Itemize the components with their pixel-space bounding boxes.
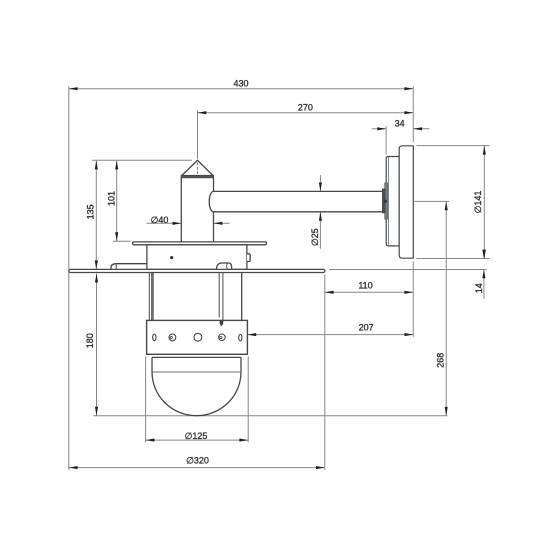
extension lines: [69, 86, 490, 470]
dim 135 line: [95, 161, 97, 270]
dim 268 line: [445, 202, 447, 416]
glass dome: [152, 372, 241, 416]
left bail clip seam: [115, 264, 117, 270]
band slot hole 5: [239, 334, 242, 341]
lamp body object lines: [69, 160, 383, 415]
dim d125 line: [146, 439, 249, 441]
cone base thick band: [181, 175, 214, 178]
ext line left x=68.8 upper: [68, 86, 70, 269]
svg-text:180: 180: [85, 333, 95, 348]
svg-text:∅320: ∅320: [186, 456, 209, 466]
dim 34 tails: [372, 128, 386, 130]
band slot hole 1: [153, 334, 156, 341]
svg-text:∅40: ∅40: [151, 215, 169, 225]
svg-text:430: 430: [233, 79, 248, 89]
ext line band right x=248.2: [247, 356, 249, 442]
svg-text:135: 135: [85, 204, 95, 219]
dim d141 line: [483, 146, 485, 259]
housing box: [147, 245, 247, 270]
svg-text:∅141: ∅141: [473, 191, 483, 214]
svg-text:101: 101: [106, 191, 116, 206]
dim 14 tail: [483, 270, 485, 299]
housing box right bump: [247, 254, 250, 262]
dim 270 line: [198, 112, 414, 114]
svg-text:268: 268: [436, 353, 446, 368]
cone cap: [181, 160, 213, 176]
ext line apex level y=160.2: [92, 159, 192, 161]
glass left side: [151, 357, 153, 372]
band screw hole 4: [219, 334, 226, 341]
latch rod: [218, 273, 220, 318]
dim d25 segments: [319, 175, 321, 191]
arm end cap arc: [209, 191, 213, 211]
ext line plate top right y=145.6: [416, 145, 489, 147]
glass right side: [240, 357, 242, 372]
lamp mounting plate 320: [69, 269, 325, 272]
right bail clip: [217, 263, 232, 269]
post right edge upper: [213, 178, 215, 192]
dim 430 line: [69, 88, 413, 90]
arm boss ring outer: [385, 183, 388, 219]
right bail clip cap arc: [227, 263, 229, 269]
svg-text:34: 34: [395, 118, 405, 128]
dim 110 line: [325, 291, 413, 293]
left bail clip: [111, 264, 147, 270]
latch hook tip: [221, 319, 223, 326]
dim 180 line: [96, 274, 98, 416]
small top plate: [133, 242, 267, 245]
svg-text:14: 14: [474, 283, 484, 293]
left bail rod: [148, 273, 150, 321]
dim 101 line: [116, 161, 118, 242]
dimension lines: [69, 89, 485, 468]
neck right edge: [241, 273, 243, 321]
dim d40 tails: [146, 222, 181, 224]
post right edge lower: [213, 212, 215, 242]
cone dashed centerline: [197, 163, 199, 175]
svg-text:∅125: ∅125: [185, 431, 208, 441]
ext line left x=68.8 lower: [68, 273, 70, 470]
ext line arm centerline y=201.4: [414, 200, 449, 202]
arm top line: [214, 190, 383, 192]
housing box hole dot: [170, 256, 173, 259]
neck left edge: [152, 273, 154, 321]
arm boss ring inner: [382, 189, 385, 213]
ext line lamp plate top y=269.5: [329, 269, 487, 271]
svg-text:270: 270: [298, 103, 313, 113]
dimension texts: [85, 79, 484, 466]
boss center dot: [384, 200, 387, 203]
wall mount object: [382, 146, 413, 258]
band: [147, 320, 248, 354]
ext line small plate y=241.2: [113, 240, 131, 242]
wall backbox: [386, 157, 399, 246]
post left edge: [180, 178, 182, 242]
arrowheads: [69, 87, 486, 469]
dim 207 line: [247, 334, 413, 336]
ext line plate right x=324.8: [324, 275, 326, 470]
backbox inner edge line: [388, 157, 390, 246]
svg-text:110: 110: [358, 280, 372, 290]
ext line dome bottom y=415.7: [93, 415, 447, 417]
svg-text:∅25: ∅25: [310, 228, 320, 246]
glass seam: [152, 371, 241, 373]
ext line wall x=413.25 upper: [412, 86, 414, 142]
svg-text:207: 207: [359, 322, 374, 332]
band screw hole 2: [169, 334, 176, 341]
wall plate disc: [399, 146, 413, 258]
ext line plate bottom right y=258.5: [416, 258, 489, 260]
band center hole 3: [194, 333, 202, 341]
dim d320 line: [69, 467, 325, 469]
glass top edge: [152, 356, 241, 358]
ext line band left x=145.6: [145, 356, 147, 442]
ext line apex x=197.5: [197, 110, 199, 159]
arm bottom line: [214, 211, 383, 213]
ext line wall x=413.25 lower: [412, 262, 414, 338]
ext line 34 left x=386.1: [385, 126, 387, 154]
